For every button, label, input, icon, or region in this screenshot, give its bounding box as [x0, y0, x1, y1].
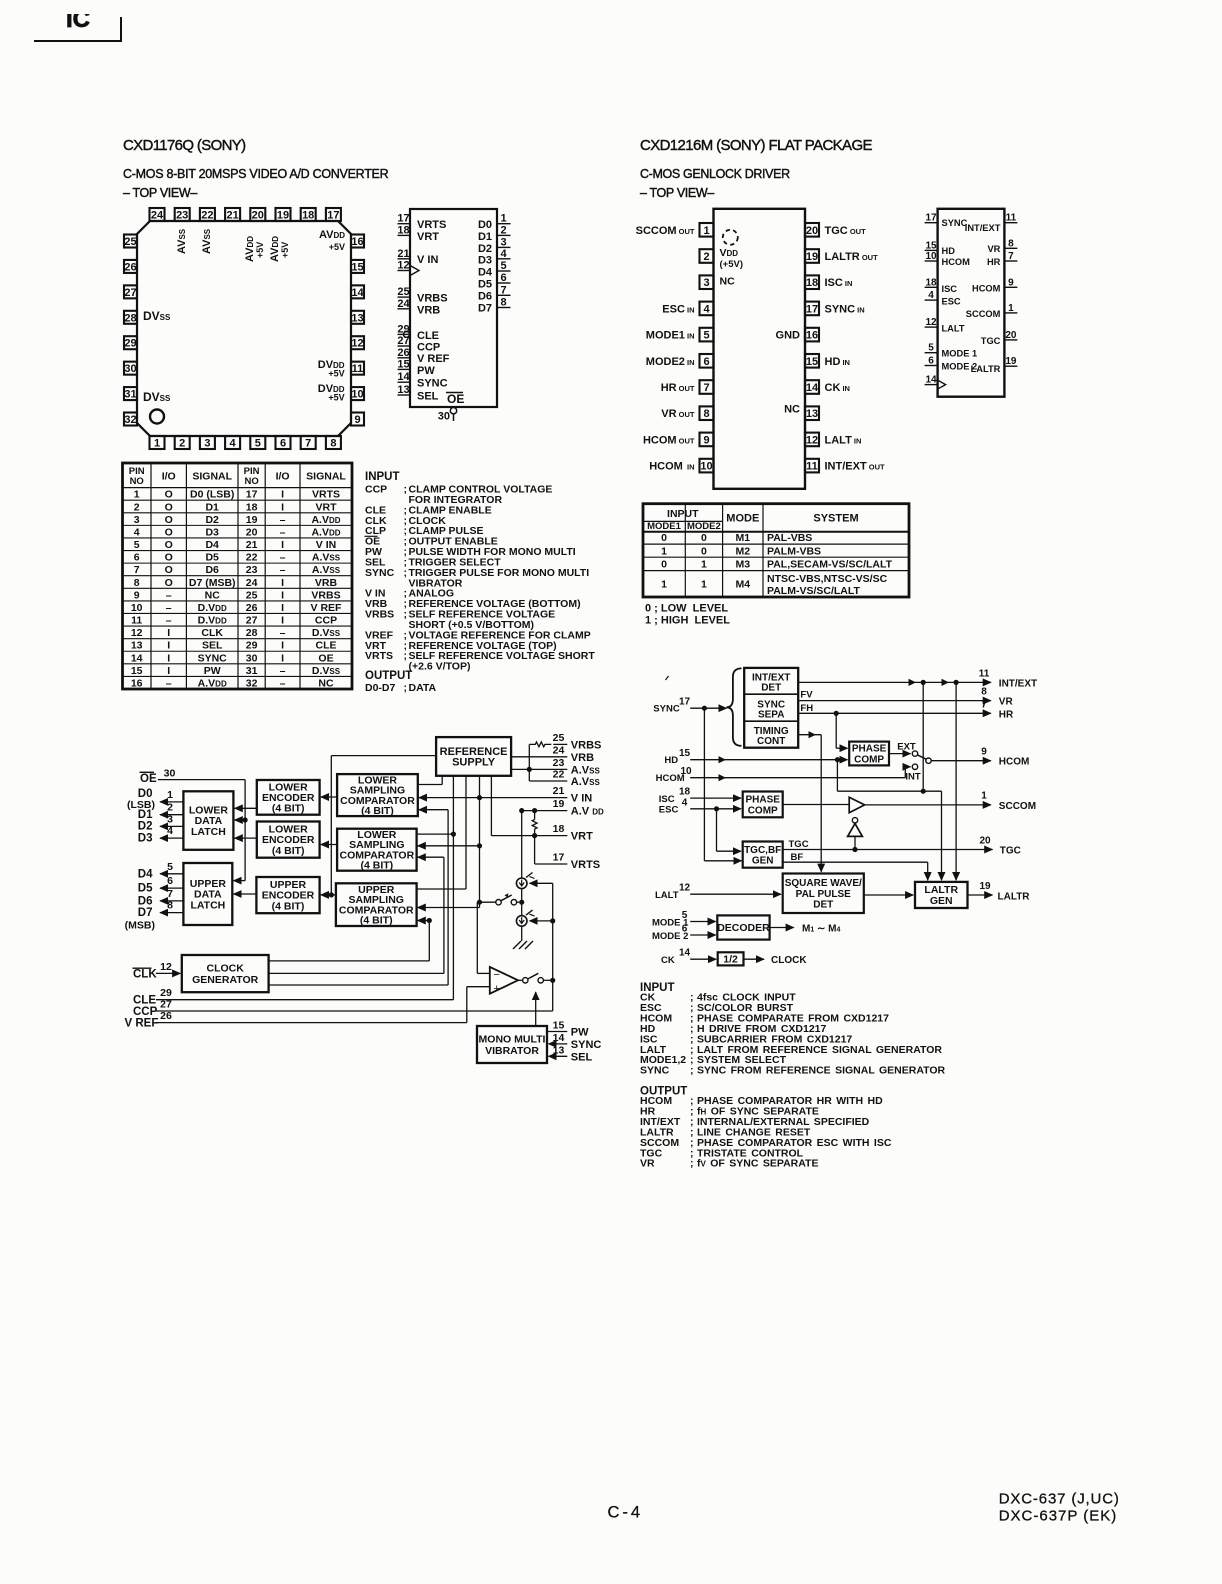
svg-text:D.VDD: D.VDD: [198, 615, 227, 627]
svg-text:PHASE: PHASE: [852, 744, 887, 755]
svg-text:15: 15: [397, 358, 409, 370]
svg-text:PAL-VBS: PAL-VBS: [767, 532, 812, 544]
svg-text:8: 8: [1008, 238, 1014, 249]
svg-text:2: 2: [500, 224, 506, 236]
svg-text:SYSTEM: SYSTEM: [813, 513, 858, 525]
svg-text:13: 13: [351, 312, 363, 324]
svg-text:PW: PW: [204, 665, 221, 677]
svg-text:D0-D7: D0-D7: [365, 682, 396, 694]
svg-text:HD: HD: [942, 246, 956, 256]
svg-text:15: 15: [806, 356, 818, 368]
svg-text:19: 19: [1005, 356, 1017, 367]
svg-text:CCP: CCP: [133, 1006, 158, 1018]
svg-text:HR OUT: HR OUT: [661, 382, 695, 394]
svg-text:SUPPLY: SUPPLY: [452, 756, 496, 768]
svg-text:7: 7: [134, 564, 140, 576]
svg-text:NC: NC: [720, 276, 736, 288]
svg-text:6: 6: [167, 875, 173, 887]
svg-text:D2: D2: [205, 514, 219, 526]
svg-text:V REF: V REF: [125, 1018, 159, 1030]
svg-text:1: 1: [500, 213, 506, 225]
svg-text:5: 5: [500, 260, 506, 272]
svg-text:+5V: +5V: [329, 242, 345, 252]
svg-text:MODE2 IN: MODE2 IN: [646, 356, 695, 368]
svg-text:OE: OE: [140, 773, 157, 785]
svg-text:I: I: [281, 489, 284, 501]
svg-text:SEL: SEL: [571, 1051, 593, 1063]
svg-text:0: 0: [661, 532, 667, 544]
svg-text:LALT: LALT: [942, 323, 965, 333]
svg-text:ESC: ESC: [942, 296, 961, 306]
svg-text:D6: D6: [205, 564, 219, 576]
svg-text:1: 1: [981, 790, 987, 801]
svg-text:11: 11: [131, 615, 142, 627]
svg-text:LATCH: LATCH: [190, 899, 225, 911]
svg-text:3: 3: [204, 438, 210, 450]
svg-text:D5: D5: [138, 883, 153, 895]
svg-text:4: 4: [682, 797, 688, 808]
svg-text:1: 1: [1008, 303, 1014, 314]
svg-text:–: –: [280, 552, 286, 564]
svg-text:18: 18: [679, 787, 691, 798]
svg-text:15: 15: [351, 261, 363, 273]
svg-text:O: O: [165, 489, 173, 501]
svg-text:VIBRATOR: VIBRATOR: [485, 1045, 539, 1057]
svg-text:INPUT: INPUT: [667, 508, 699, 520]
svg-text:D1: D1: [205, 501, 219, 513]
svg-text:D1: D1: [478, 231, 492, 243]
svg-text:OE: OE: [447, 392, 464, 406]
svg-text:PW: PW: [571, 1027, 589, 1039]
svg-text:HCOM IN: HCOM IN: [649, 461, 694, 473]
svg-text:14: 14: [397, 371, 410, 383]
svg-text:EXT: EXT: [897, 741, 916, 752]
svg-text:29: 29: [160, 987, 172, 999]
svg-text:17: 17: [327, 210, 339, 222]
svg-text:7: 7: [500, 284, 506, 296]
svg-text:7: 7: [167, 888, 173, 900]
svg-text:VDD: VDD: [720, 247, 739, 259]
svg-text:6: 6: [703, 356, 709, 368]
svg-text:A.VSS: A.VSS: [571, 765, 601, 777]
svg-text:11: 11: [979, 668, 990, 679]
svg-text:5: 5: [928, 343, 934, 354]
svg-text:14: 14: [679, 948, 691, 959]
svg-text:21: 21: [226, 210, 238, 222]
svg-text:10: 10: [925, 251, 937, 262]
svg-text:INT/EXT: INT/EXT: [965, 223, 1001, 233]
svg-text:23: 23: [176, 210, 188, 222]
svg-text:18: 18: [806, 277, 818, 289]
svg-text:(4 BIT): (4 BIT): [361, 805, 394, 817]
svg-text:D2: D2: [138, 821, 153, 833]
svg-text:6: 6: [134, 552, 140, 564]
svg-text:0: 0: [661, 559, 667, 571]
svg-text:HR: HR: [999, 709, 1014, 720]
svg-text:(MSB): (MSB): [125, 920, 155, 932]
svg-text:V IN: V IN: [316, 539, 336, 551]
svg-text:(4 BIT): (4 BIT): [272, 900, 305, 912]
svg-text:SYNC: SYNC: [653, 704, 680, 715]
svg-text:CXD1176Q (SONY): CXD1176Q (SONY): [123, 137, 246, 154]
svg-text:12: 12: [397, 260, 409, 272]
svg-text:D4: D4: [478, 267, 493, 279]
svg-text:−: −: [494, 969, 500, 981]
svg-text:29: 29: [124, 338, 136, 350]
svg-text:MODE: MODE: [726, 513, 759, 525]
svg-text:O: O: [165, 501, 173, 513]
svg-text:16: 16: [351, 236, 363, 248]
svg-text:VRTS: VRTS: [417, 219, 446, 231]
svg-text:VRBS: VRBS: [417, 293, 448, 305]
svg-text:I: I: [281, 615, 284, 627]
svg-text:TGC OUT: TGC OUT: [825, 225, 867, 237]
svg-text:CLK: CLK: [201, 627, 223, 639]
svg-text:VRB: VRB: [571, 752, 594, 764]
svg-text:18: 18: [553, 823, 565, 835]
svg-text:17: 17: [679, 697, 691, 708]
svg-text:16: 16: [131, 678, 143, 690]
svg-text:NC: NC: [318, 678, 334, 690]
svg-text:D7: D7: [138, 907, 153, 919]
svg-text:7: 7: [981, 699, 987, 710]
svg-text:+5V: +5V: [328, 393, 344, 403]
svg-text:15: 15: [679, 748, 691, 759]
svg-text:28: 28: [246, 627, 258, 639]
svg-text:D4: D4: [205, 539, 219, 551]
svg-text:CCP: CCP: [365, 484, 387, 496]
svg-text:4: 4: [134, 526, 140, 538]
svg-text:AVDD: AVDD: [319, 229, 345, 241]
svg-text:13: 13: [131, 640, 143, 652]
svg-text:SIGNAL: SIGNAL: [306, 471, 346, 483]
svg-text:(4 BIT): (4 BIT): [272, 803, 305, 815]
svg-text:;: ;: [404, 484, 408, 496]
svg-text:SYNC: SYNC: [640, 1065, 670, 1077]
svg-text:CK IN: CK IN: [825, 382, 850, 394]
svg-text:– TOP VIEW–: – TOP VIEW–: [123, 186, 197, 200]
svg-text:D6: D6: [138, 895, 153, 907]
svg-text:15: 15: [131, 665, 143, 677]
svg-text:I: I: [167, 665, 170, 677]
svg-text:VRT: VRT: [316, 501, 338, 513]
svg-text:–: –: [166, 589, 172, 601]
svg-text:MODE 1: MODE 1: [942, 349, 978, 359]
svg-text:25: 25: [246, 589, 258, 601]
svg-text:29: 29: [246, 640, 258, 652]
svg-text:A.VSS: A.VSS: [312, 564, 341, 576]
svg-text:9: 9: [703, 434, 709, 446]
svg-text:INT/EXT OUT: INT/EXT OUT: [825, 461, 886, 473]
svg-text:8: 8: [981, 687, 987, 698]
svg-text:1: 1: [701, 559, 707, 571]
svg-text:PALM-VS/SC/LALT: PALM-VS/SC/LALT: [767, 585, 861, 597]
svg-text:10: 10: [700, 461, 712, 473]
svg-text:ESC IN: ESC IN: [662, 303, 694, 315]
svg-text:O: O: [165, 577, 173, 589]
svg-text:SEPA: SEPA: [758, 710, 785, 721]
svg-text:DET: DET: [813, 900, 833, 911]
svg-text:DXC-637P (EK): DXC-637P (EK): [999, 1508, 1118, 1525]
svg-text:30: 30: [438, 411, 450, 423]
svg-text:1: 1: [134, 489, 140, 501]
svg-text:5: 5: [682, 910, 688, 921]
svg-text:1: 1: [703, 225, 709, 237]
svg-text:LALT IN: LALT IN: [825, 434, 862, 446]
svg-text:SCCOM OUT: SCCOM OUT: [636, 225, 695, 237]
svg-text:–: –: [166, 615, 172, 627]
svg-text:12: 12: [806, 434, 818, 446]
svg-text:27: 27: [124, 287, 136, 299]
svg-text:19: 19: [246, 514, 258, 526]
svg-text:0 ; LOW LEVEL: 0 ; LOW LEVEL: [645, 603, 728, 615]
svg-text:CCP: CCP: [417, 342, 440, 354]
svg-text:3: 3: [167, 813, 173, 825]
svg-text:HCOM OUT: HCOM OUT: [643, 434, 695, 446]
svg-text:NC: NC: [205, 589, 221, 601]
svg-text:24: 24: [397, 298, 410, 310]
svg-text:V REF: V REF: [417, 353, 450, 365]
svg-text:D7: D7: [478, 303, 492, 315]
svg-text:SIGNAL: SIGNAL: [192, 471, 232, 483]
svg-text:20: 20: [806, 225, 818, 237]
svg-text:19: 19: [806, 251, 818, 263]
svg-text:1: 1: [661, 578, 667, 590]
svg-text:INT: INT: [905, 772, 921, 783]
svg-text:7: 7: [1008, 251, 1014, 262]
svg-text:V IN: V IN: [571, 793, 592, 805]
svg-text:SYNC IN: SYNC IN: [825, 303, 865, 315]
svg-text:18: 18: [397, 224, 409, 236]
svg-text:O: O: [165, 514, 173, 526]
svg-text:14: 14: [925, 375, 937, 386]
svg-text:D1: D1: [138, 809, 153, 821]
svg-text:TGC: TGC: [1000, 846, 1021, 857]
svg-text:28: 28: [124, 312, 136, 324]
svg-text:1: 1: [701, 578, 707, 590]
svg-text:I: I: [281, 640, 284, 652]
svg-text:M3: M3: [736, 559, 751, 571]
svg-text:HD IN: HD IN: [825, 356, 850, 368]
svg-text:4: 4: [703, 303, 710, 315]
svg-text:32: 32: [246, 678, 258, 690]
svg-text:30: 30: [164, 768, 176, 780]
svg-text:HCOM: HCOM: [999, 757, 1030, 768]
svg-text:11: 11: [352, 363, 364, 375]
svg-text:COMP: COMP: [748, 805, 778, 816]
svg-text:5: 5: [167, 861, 173, 873]
svg-text:0: 0: [701, 532, 707, 544]
svg-text:1: 1: [661, 545, 667, 557]
svg-text:D3: D3: [138, 832, 153, 844]
svg-text:18: 18: [925, 277, 937, 288]
svg-text:9: 9: [354, 414, 360, 426]
svg-text:–: –: [280, 665, 286, 677]
svg-text:VR: VR: [999, 697, 1014, 708]
svg-text:4: 4: [500, 248, 507, 260]
svg-text:23: 23: [553, 757, 565, 769]
svg-text:M1 ∼ M4: M1 ∼ M4: [802, 923, 841, 934]
svg-text:;: ;: [404, 609, 408, 621]
svg-text:A.VDD: A.VDD: [198, 678, 227, 690]
svg-text:O: O: [165, 526, 173, 538]
svg-text:COMP: COMP: [854, 755, 884, 766]
svg-text:15: 15: [925, 240, 937, 251]
svg-text:O: O: [165, 552, 173, 564]
svg-text:19: 19: [979, 881, 991, 892]
svg-text:A.VDD: A.VDD: [311, 514, 340, 526]
svg-text:VR OUT: VR OUT: [661, 408, 695, 420]
svg-text:17: 17: [925, 213, 937, 224]
svg-text:19: 19: [553, 798, 565, 810]
svg-text:1: 1: [154, 438, 160, 450]
svg-text:HR: HR: [987, 257, 1001, 267]
svg-text:fV OF SYNC SEPARATE: fV OF SYNC SEPARATE: [697, 1158, 818, 1170]
svg-text:9: 9: [981, 747, 987, 758]
svg-text:;: ;: [404, 567, 408, 579]
svg-text:0: 0: [701, 545, 707, 557]
svg-text:5: 5: [255, 438, 261, 450]
svg-text:VRBS: VRBS: [365, 609, 394, 621]
svg-text:12: 12: [160, 961, 172, 973]
svg-text:26: 26: [246, 602, 258, 614]
svg-text:2: 2: [134, 501, 140, 513]
svg-text:LALTR: LALTR: [971, 364, 1001, 374]
svg-text:ISC: ISC: [659, 794, 675, 805]
svg-text:D5: D5: [478, 279, 492, 291]
svg-text:12: 12: [131, 627, 143, 639]
svg-text:D6: D6: [478, 291, 492, 303]
svg-text:2: 2: [167, 802, 173, 814]
svg-text:CLE: CLE: [417, 330, 439, 342]
svg-text:13: 13: [397, 384, 409, 396]
svg-text:VR: VR: [640, 1158, 655, 1170]
svg-text:ISC IN: ISC IN: [825, 277, 853, 289]
svg-text:8: 8: [134, 577, 140, 589]
svg-text:–: –: [280, 514, 286, 526]
svg-text:10: 10: [351, 389, 363, 401]
svg-text:MODE1 IN: MODE1 IN: [646, 330, 695, 342]
svg-text:D7 (MSB): D7 (MSB): [189, 577, 236, 589]
svg-text:3: 3: [134, 514, 140, 526]
svg-text:(+2.6 V/TOP): (+2.6 V/TOP): [409, 661, 471, 673]
svg-text:10: 10: [131, 602, 143, 614]
svg-text:VRBS: VRBS: [571, 740, 602, 752]
svg-text:AVSS: AVSS: [201, 228, 213, 254]
svg-text:A.V DD: A.V DD: [571, 806, 604, 818]
svg-text:22: 22: [246, 552, 258, 564]
svg-text:3: 3: [703, 277, 709, 289]
svg-text:SEL: SEL: [202, 640, 223, 652]
svg-text:22: 22: [201, 210, 213, 222]
svg-text:21: 21: [397, 248, 409, 260]
svg-text:(4 BIT): (4 BIT): [272, 845, 305, 857]
svg-text:27: 27: [246, 615, 258, 627]
svg-text:(+5V): (+5V): [720, 259, 744, 270]
svg-text:8: 8: [703, 408, 709, 420]
svg-text:(4 BIT): (4 BIT): [360, 915, 393, 927]
svg-text:CLOCK: CLOCK: [207, 962, 245, 974]
svg-text:I: I: [167, 652, 170, 664]
svg-text:AVSS: AVSS: [176, 228, 188, 254]
svg-text:SEL: SEL: [417, 391, 439, 403]
svg-text:25: 25: [553, 732, 565, 744]
svg-text:15: 15: [553, 1020, 565, 1032]
svg-text:GEN: GEN: [752, 856, 774, 867]
svg-text:20: 20: [252, 210, 264, 222]
svg-text:8: 8: [167, 900, 173, 912]
svg-text:17: 17: [397, 213, 409, 225]
svg-text:A.VSS: A.VSS: [571, 776, 601, 788]
svg-text:SQUARE WAVE/: SQUARE WAVE/: [785, 878, 862, 889]
svg-text:OE: OE: [318, 652, 333, 664]
svg-text:18: 18: [302, 210, 314, 222]
svg-text:20: 20: [979, 835, 991, 846]
svg-text:–: –: [280, 627, 286, 639]
svg-text:D0 (LSB): D0 (LSB): [190, 489, 234, 501]
svg-text:C-MOS 8-BIT 20MSPS VIDEO A/D C: C-MOS 8-BIT 20MSPS VIDEO A/D CONVERTER: [123, 167, 389, 181]
svg-text:2: 2: [703, 251, 709, 263]
svg-text:26: 26: [124, 261, 136, 273]
svg-text:FV: FV: [800, 690, 813, 701]
svg-text:3: 3: [500, 236, 506, 248]
svg-text:D.VSS: D.VSS: [312, 665, 341, 677]
svg-text:8: 8: [330, 438, 336, 450]
svg-text:M1: M1: [736, 532, 751, 544]
svg-text:VRTS: VRTS: [571, 859, 600, 871]
svg-text:MONO MULTI: MONO MULTI: [479, 1033, 546, 1045]
svg-text:4: 4: [167, 825, 173, 837]
svg-text:13: 13: [553, 1044, 565, 1056]
svg-text:VRTS: VRTS: [312, 489, 340, 501]
svg-text:MODE2: MODE2: [687, 521, 721, 532]
svg-text:CCP: CCP: [315, 615, 337, 627]
svg-text:27: 27: [160, 999, 172, 1011]
svg-text:–: –: [280, 564, 286, 576]
svg-text:SYNC: SYNC: [198, 652, 228, 664]
svg-text:ESC: ESC: [659, 805, 679, 816]
svg-text:TGC: TGC: [789, 839, 809, 850]
svg-text:D3: D3: [478, 255, 492, 267]
svg-text:–: –: [166, 678, 172, 690]
svg-text:+5V: +5V: [328, 369, 344, 379]
svg-text:SCCOM: SCCOM: [999, 801, 1036, 812]
svg-text:DATA: DATA: [409, 682, 437, 694]
svg-text:VRB: VRB: [417, 305, 440, 317]
svg-text:D.VSS: D.VSS: [312, 627, 341, 639]
svg-text:NC: NC: [784, 404, 800, 416]
svg-text:VR: VR: [987, 244, 1000, 254]
svg-text:SYNC: SYNC: [417, 378, 448, 390]
svg-text:22: 22: [553, 769, 565, 781]
svg-text:TGC: TGC: [981, 336, 1001, 346]
svg-text:PALM-VBS: PALM-VBS: [767, 545, 821, 557]
svg-text:11: 11: [1006, 213, 1017, 224]
svg-text:CLK: CLK: [133, 969, 157, 981]
svg-text:6: 6: [928, 356, 934, 367]
svg-text:14: 14: [131, 652, 143, 664]
svg-text:– TOP VIEW–: – TOP VIEW–: [640, 186, 714, 200]
svg-text:21: 21: [553, 785, 565, 797]
svg-text:M4: M4: [736, 578, 751, 590]
svg-text:I: I: [281, 501, 284, 513]
svg-text:17: 17: [246, 489, 258, 501]
svg-text:12: 12: [679, 883, 691, 894]
svg-text:14: 14: [806, 382, 819, 394]
svg-text:30: 30: [124, 363, 136, 375]
svg-text:D5: D5: [205, 552, 219, 564]
svg-text:7: 7: [305, 438, 311, 450]
